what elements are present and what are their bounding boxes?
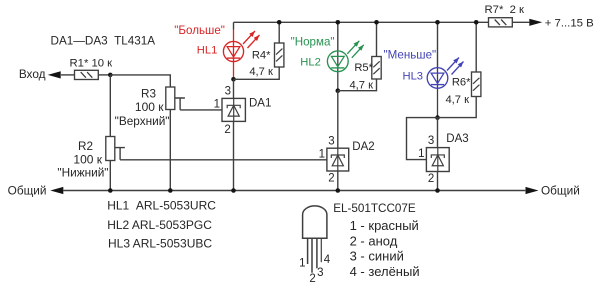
svg-text:3: 3 (317, 267, 323, 279)
node Общий right label (541, 183, 580, 197)
label HL3 (403, 70, 424, 82)
resistor R4 label (252, 50, 271, 62)
wire R2 wiper to DA2 pin1 (120, 159, 327, 161)
input off-page arrow (48, 71, 61, 78)
op-amp U DA3 TL431 (426, 148, 449, 172)
svg-text:4,7 к: 4,7 к (349, 80, 373, 92)
node Общий left label (8, 183, 47, 197)
resistor R2 label (78, 140, 93, 153)
LED HL2 green (327, 41, 363, 72)
wire DA3 pin2 to common rail (437, 172, 439, 191)
wire DA1 pin2 to common rail (233, 121, 235, 190)
note pin 2 анод (350, 233, 398, 248)
node A junction R1/R2/R3 (108, 73, 113, 78)
pin 1 label DA2 (319, 148, 325, 160)
wire top rail to R5 (376, 22, 378, 56)
wire top rail to HL3 (437, 22, 439, 67)
label Меньше (384, 49, 437, 62)
label DA2 (352, 141, 374, 153)
svg-text:100 к: 100 к (135, 100, 164, 114)
svg-text:Вход: Вход (19, 67, 46, 81)
node HL1 cathode junction (231, 77, 236, 82)
trimmer resistor R2 (106, 137, 115, 161)
wire top rail to R4 (278, 22, 280, 43)
wire top rail to HL1 (233, 22, 235, 29)
supply off-page arrow (529, 19, 542, 26)
trimmer R2 wiper (115, 148, 125, 160)
svg-text:1: 1 (214, 99, 220, 111)
svg-text:4,7 к: 4,7 к (445, 94, 469, 106)
pin 2 label DA1 (224, 124, 230, 136)
wire HL3 junction to DA3 pin1 (407, 118, 438, 160)
label HL1 (197, 45, 218, 57)
note pin 4 зелёный (350, 264, 420, 279)
svg-text:1: 1 (299, 257, 305, 269)
pin 3 label DA3 (428, 135, 434, 147)
svg-text:HL2: HL2 (300, 56, 321, 68)
pin 2 label DA2 (328, 173, 334, 185)
resistor R4 value (249, 66, 273, 78)
resistor R3 label (141, 88, 156, 101)
svg-text:2: 2 (328, 173, 334, 185)
wire R3 bottom to common rail (169, 110, 171, 191)
node HL3 cathode junction (435, 115, 440, 120)
svg-text:2: 2 (428, 173, 434, 185)
svg-text:DA3: DA3 (446, 133, 468, 145)
resistor R4 (275, 43, 284, 67)
svg-text:EL-501TCC07E: EL-501TCC07E (333, 202, 416, 215)
note pin 3 синий (350, 249, 404, 264)
svg-text:"Больше": "Больше" (174, 24, 225, 37)
svg-text:HL3: HL3 (403, 70, 424, 82)
svg-text:3 - синий: 3 - синий (350, 249, 404, 264)
svg-text:4,7 к: 4,7 к (249, 66, 273, 78)
svg-text:R5*: R5* (354, 62, 373, 74)
resistor R1 label (70, 57, 113, 69)
label HL2 (300, 56, 321, 68)
resistor R1 (75, 70, 99, 79)
wire top rail (234, 21, 489, 23)
svg-text:DA1—DA3 TL431A: DA1—DA3 TL431A (51, 35, 156, 48)
svg-text:2: 2 (309, 273, 315, 285)
svg-text:4: 4 (324, 254, 331, 266)
svg-text:4 - зелёный: 4 - зелёный (350, 264, 420, 279)
LED HL1 red (223, 31, 259, 62)
label DA1 (249, 97, 271, 109)
svg-text:3: 3 (225, 86, 231, 98)
svg-text:"Нижний": "Нижний" (57, 166, 108, 180)
svg-text:R6*: R6* (452, 77, 471, 89)
svg-text:+ 7...15 В: + 7...15 В (545, 18, 594, 30)
wire through HL2 (337, 51, 339, 91)
svg-text:HL2 ARL-5053PGC: HL2 ARL-5053PGC (107, 218, 212, 232)
svg-text:R7* 2 к: R7* 2 к (485, 4, 525, 16)
wire through HL1 (233, 30, 235, 78)
junction dots on top rail (277, 20, 479, 25)
resistor R7 (489, 18, 513, 27)
svg-text:2: 2 (224, 124, 230, 136)
note HL2 type (107, 218, 212, 232)
wire top rail to R6 (475, 22, 477, 72)
pin 3 label DA1 (225, 86, 231, 98)
note HL1 type (107, 199, 216, 213)
IC type note DA1-DA3 TL431A (51, 35, 156, 48)
node Вход label (19, 67, 46, 81)
wire R5 bottom to HL2 junction (338, 79, 377, 91)
note HL3 type (108, 237, 212, 251)
svg-text:2 - анод: 2 - анод (350, 233, 398, 248)
note package type (333, 202, 416, 215)
resistor R2 value (73, 153, 102, 167)
wire through HL3 (437, 68, 439, 118)
svg-text:Общий: Общий (541, 183, 580, 197)
svg-text:HL1: HL1 (197, 45, 218, 57)
pin 3 label DA2 (328, 135, 334, 147)
svg-text:100 к: 100 к (73, 153, 102, 167)
resistor R6 label (452, 77, 471, 89)
svg-text:R2: R2 (78, 140, 93, 153)
wire node A down to R2 (109, 75, 111, 137)
supply label +7...15V (545, 18, 594, 30)
svg-text:"Меньше": "Меньше" (384, 49, 437, 62)
label Больше (174, 24, 225, 37)
svg-text:1 - красный: 1 - красный (350, 218, 419, 233)
svg-text:DA2: DA2 (352, 141, 374, 153)
pin 1 label DA3 (418, 148, 424, 160)
svg-text:"Норма": "Норма" (291, 35, 335, 48)
svg-text:3: 3 (328, 135, 334, 147)
pin 1 label DA1 (214, 99, 220, 111)
common left arrow (50, 187, 63, 194)
junction dots on common rail (108, 188, 440, 193)
svg-text:HL1 ARL-5053URC: HL1 ARL-5053URC (107, 199, 216, 213)
op-amp U DA2 TL431 (327, 148, 349, 171)
note pin 1 красный (350, 218, 419, 233)
svg-text:3: 3 (428, 135, 434, 147)
wire input arrow to R1 (61, 74, 75, 76)
wire R2 bottom to common rail (109, 161, 111, 191)
wire R6 bottom to HL3 junction (438, 97, 477, 118)
svg-text:Общий: Общий (8, 183, 47, 197)
package pin numbers (299, 254, 331, 285)
resistor R7 label (485, 4, 525, 16)
wire R4 bottom to HL1 junction (234, 67, 280, 79)
resistor R6 value (445, 94, 469, 106)
svg-text:1: 1 (418, 148, 424, 160)
svg-text:"Верхний": "Верхний" (115, 114, 170, 128)
common right arrow (526, 187, 539, 194)
trimmer R3 wiper (175, 98, 185, 110)
resistor R5 label (354, 62, 373, 74)
svg-text:HL3 ARL-5053UBC: HL3 ARL-5053UBC (108, 237, 212, 251)
wire top rail to HL2 (337, 22, 339, 51)
trimmer resistor R3 (166, 87, 175, 110)
resistor R2 name Нижний (57, 166, 108, 180)
wire node A to R3 top (110, 75, 170, 87)
label DA3 (446, 133, 468, 145)
resistor R5 value (349, 80, 373, 92)
wire R3 wiper to DA1 pin1 (180, 109, 222, 111)
wire DA2 pin2 to common rail (337, 171, 339, 191)
wire common rail (63, 190, 525, 192)
op-amp U DA1 TL431 (222, 98, 245, 121)
wire HL1 junction to DA1 pin3 (233, 79, 235, 98)
resistor R3 value (135, 100, 164, 114)
label Норма (291, 35, 335, 48)
resistor R5 (372, 57, 381, 80)
wire R7 to supply arrow (512, 21, 529, 23)
svg-text:1: 1 (319, 148, 325, 160)
svg-text:R4*: R4* (252, 50, 271, 62)
node HL2 cathode junction (336, 88, 341, 93)
LED HL3 blue (427, 58, 463, 89)
wire HL2 junction to DA2 pin3 (337, 91, 339, 149)
wire R1 to node A (98, 74, 110, 76)
LED package EL-501 outline (303, 206, 327, 273)
pin 2 label DA3 (428, 173, 434, 185)
resistor R3 name Верхний (115, 114, 170, 128)
svg-text:R3: R3 (141, 88, 156, 101)
wire HL3 junction to DA3 pin3 (437, 118, 439, 148)
svg-text:R1* 10 к: R1* 10 к (70, 57, 113, 69)
svg-text:DA1: DA1 (249, 97, 271, 109)
resistor R6 (472, 72, 481, 97)
